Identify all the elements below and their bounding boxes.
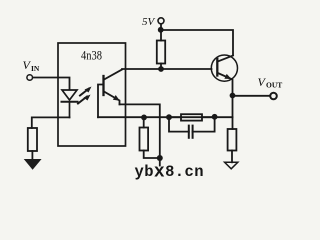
phototransistor base lead [98,85,104,118]
resistor R4 (load) [228,129,237,151]
terminal 5V [158,18,164,24]
wire to VOUT terminal [233,95,271,97]
ground (filled) [25,160,41,170]
wire R3 bottom to node E [144,151,160,159]
wire C1 right lead [193,117,215,131]
node A [158,66,164,72]
terminal VIN [27,75,33,81]
svg-text:5V: 5V [142,16,156,28]
svg-text:OUT: OUT [266,81,282,90]
light arrow 1 [80,87,92,96]
transistor Q1 emitter arrowhead [224,74,231,79]
svg-text:ybx8.cn: ybx8.cn [135,163,204,183]
wire LED cathode route [32,117,70,128]
wire top rail to Q1 collector [161,30,233,55]
node E [157,155,163,161]
node below 5V [158,27,164,33]
transistor Q1 emitter [218,73,233,96]
resistor R3 (base-emitter) [140,128,149,151]
wire R5 leads [169,116,181,118]
wire R3 top lead [143,117,145,127]
phototransistor base bar [102,76,104,95]
wire emitter node down [232,96,234,130]
svg-text:IN: IN [31,64,40,73]
capacitor C1 plates [188,126,190,138]
phototransistor collector [104,70,122,80]
wire R4 to ground [231,151,233,163]
wire C1 left lead [169,117,189,131]
wire stub below node E [159,158,161,166]
node VOUT junction [230,93,236,99]
svg-text:4n38: 4n38 [81,48,102,63]
resistor R2 (5V pull-up) [157,41,165,64]
wire R1 to ground [31,151,33,160]
node D [212,114,218,120]
terminal VOUT [270,93,277,100]
wire 5V down [160,24,162,30]
resistor R1 (input) [28,128,37,151]
transistor Q1 collector [218,56,233,62]
transistor Q1 base bar [216,59,218,76]
transistor Q1 envelope [211,55,237,81]
LED D1 [62,90,78,117]
node C [166,114,172,120]
node B [141,115,147,121]
light arrow 2 [78,95,91,104]
wire: opto collector to node A rail [122,68,212,70]
wire VIN to LED anode [33,78,70,90]
optocoupler U1 package box [58,43,126,146]
wire R2 leads [160,30,162,41]
resistor R5 (horizontal) [181,114,202,120]
phototransistor emitter arrowhead [113,95,120,101]
ground (open triangle) [225,162,238,169]
wire opto emitter route [120,104,160,158]
wire base rail D [98,116,233,118]
phototransistor emitter [104,92,120,105]
